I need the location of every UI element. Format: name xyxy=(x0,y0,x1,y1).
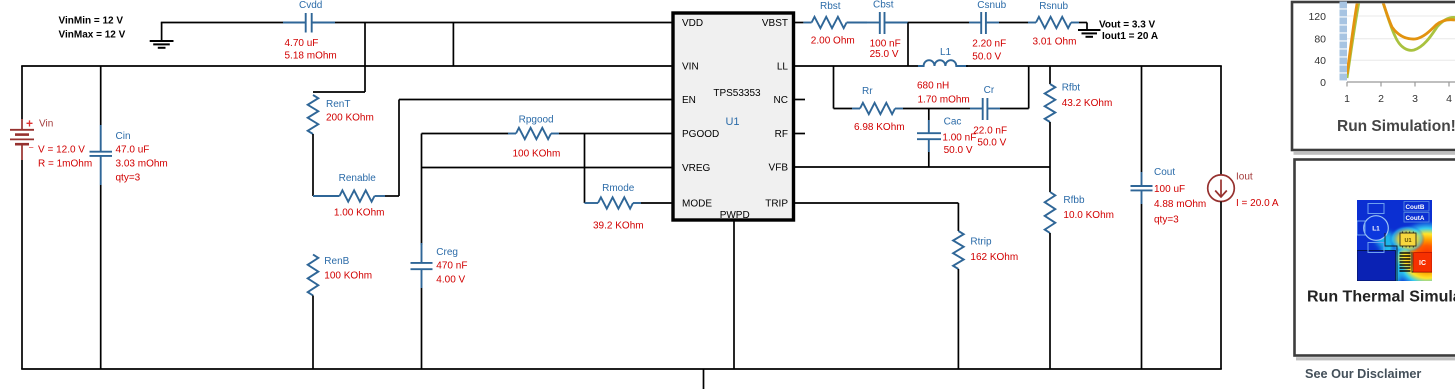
resistor Renable xyxy=(313,173,385,219)
wire TRIP xyxy=(794,203,959,231)
svg-text:U1: U1 xyxy=(725,116,739,128)
wire Iout top xyxy=(1220,66,1222,175)
resistor RenB xyxy=(308,255,372,296)
svg-text:100 KOhm: 100 KOhm xyxy=(513,149,561,160)
svg-text:3: 3 xyxy=(1412,93,1418,105)
wire Rr to Cr xyxy=(903,108,970,110)
wire Rsnub to output ground xyxy=(1079,23,1087,30)
chart curve green xyxy=(1347,0,1455,78)
svg-text:200 KOhm: 200 KOhm xyxy=(326,113,374,124)
wire Csnub to Rsnub xyxy=(999,22,1028,24)
wire Rr loop left vertical xyxy=(833,66,835,109)
wire PGOOD right segment xyxy=(559,133,673,135)
thermal image xyxy=(1357,200,1455,293)
svg-text:22.0 nF: 22.0 nF xyxy=(973,125,1007,136)
svg-text:VFB: VFB xyxy=(769,163,789,174)
panel: thermal simulation xyxy=(1295,160,1455,361)
svg-text:RenB: RenB xyxy=(324,256,349,267)
svg-text:39.2 KOhm: 39.2 KOhm xyxy=(593,221,644,232)
svg-text:470 nF: 470 nF xyxy=(436,260,467,271)
wire NC stub xyxy=(794,99,806,101)
svg-text:qty=3: qty=3 xyxy=(116,172,141,183)
resistor Rmode xyxy=(585,183,644,232)
svg-text:Run Simulation!: Run Simulation! xyxy=(1337,118,1455,135)
wire Cr to loop right xyxy=(1000,108,1029,110)
wire Rr left segment xyxy=(834,108,853,110)
svg-text:680 nH: 680 nH xyxy=(917,81,949,92)
wire RenB to bottom rail xyxy=(312,296,314,370)
svg-text:VinMin = 12 V: VinMin = 12 V xyxy=(59,16,124,27)
svg-text:PGOOD: PGOOD xyxy=(682,129,719,140)
svg-text:RenT: RenT xyxy=(326,99,350,110)
svg-text:R = 1mOhm: R = 1mOhm xyxy=(38,159,92,170)
wire RenT branch xyxy=(313,66,365,92)
svg-text:Renable: Renable xyxy=(339,173,377,184)
chart gridlines xyxy=(1347,16,1455,60)
chart curve orange xyxy=(1347,0,1455,74)
svg-text:Rtrip: Rtrip xyxy=(970,237,992,248)
wire Renable to EN corner xyxy=(385,195,399,197)
wire EN xyxy=(399,100,673,197)
svg-text:VREG: VREG xyxy=(682,163,711,174)
resistor Rfbb xyxy=(1045,192,1114,233)
svg-text:Cr: Cr xyxy=(984,85,995,96)
ground (input) xyxy=(150,23,174,48)
op-amp IC U1 TPS53353 xyxy=(673,13,794,221)
capacitor Csnub xyxy=(969,0,1007,63)
svg-text:IC: IC xyxy=(1419,260,1426,267)
wire junction drop x453 xyxy=(452,23,454,67)
chart y-axis tick strip xyxy=(1340,2,1348,81)
svg-text:CoutB: CoutB xyxy=(1406,204,1425,211)
svg-text:Cout: Cout xyxy=(1154,167,1175,178)
wire PGOOD left segment xyxy=(422,133,509,135)
svg-text:4.70 uF: 4.70 uF xyxy=(285,38,319,49)
svg-text:4: 4 xyxy=(1446,93,1452,105)
svg-text:LL: LL xyxy=(777,62,789,73)
svg-text:See Our Disclaimer: See Our Disclaimer xyxy=(1305,367,1421,381)
svg-text:CoutA: CoutA xyxy=(1406,215,1425,222)
wire LL rail left xyxy=(794,65,925,67)
capacitor Creg xyxy=(411,243,468,288)
wire Creg to bottom rail xyxy=(421,288,423,369)
svg-text:50.0 V: 50.0 V xyxy=(972,52,1001,63)
wire PWPD stem xyxy=(733,220,735,369)
wire junction drop x908 to LL xyxy=(907,23,909,67)
wire RF stub xyxy=(794,133,806,135)
wire Rtrip to bottom rail xyxy=(957,269,959,369)
wire junction drop x365 xyxy=(364,23,366,67)
svg-text:3.03 mOhm: 3.03 mOhm xyxy=(116,159,168,170)
svg-text:Cvdd: Cvdd xyxy=(299,0,322,11)
svg-text:V = 12.0 V: V = 12.0 V xyxy=(38,145,85,156)
current source Iout xyxy=(1208,172,1279,210)
wire Rfbb to bottom rail xyxy=(1049,233,1051,369)
panel: waveform chart xyxy=(1292,2,1455,155)
svg-text:RF: RF xyxy=(775,129,788,140)
svg-text:+: + xyxy=(26,117,33,131)
svg-text:L1: L1 xyxy=(1372,226,1380,233)
svg-text:47.0 uF: 47.0 uF xyxy=(116,144,150,155)
wire Rfbt top xyxy=(1049,66,1051,84)
svg-text:1.00 KOhm: 1.00 KOhm xyxy=(334,208,385,219)
svg-text:1.70 mOhm: 1.70 mOhm xyxy=(918,95,970,106)
chart x-axis xyxy=(1344,82,1455,105)
svg-text:Cin: Cin xyxy=(116,131,131,142)
svg-text:100 KOhm: 100 KOhm xyxy=(324,270,372,281)
svg-text:Csnub: Csnub xyxy=(977,0,1006,11)
wire Iout bottom xyxy=(1220,202,1222,370)
svg-text:Rbst: Rbst xyxy=(820,1,841,12)
wire MODE to IC xyxy=(641,202,673,204)
ground stem (bottom) xyxy=(703,369,705,389)
svg-text:TPS53353: TPS53353 xyxy=(713,88,761,99)
svg-text:5.18 mOhm: 5.18 mOhm xyxy=(285,51,337,62)
svg-text:50.0 V: 50.0 V xyxy=(944,145,973,156)
svg-text:40: 40 xyxy=(1314,55,1326,67)
svg-text:Rfbt: Rfbt xyxy=(1062,83,1081,94)
svg-text:100 nF: 100 nF xyxy=(870,38,901,49)
svg-text:100 uF: 100 uF xyxy=(1154,184,1185,195)
svg-text:80: 80 xyxy=(1314,33,1326,45)
svg-text:PWPD: PWPD xyxy=(720,210,750,221)
wire top VDD rail xyxy=(161,22,673,24)
wire left rail lower xyxy=(21,160,23,369)
svg-text:Iout: Iout xyxy=(1236,172,1253,183)
capacitor Cac xyxy=(917,109,976,168)
wire LL rail right xyxy=(966,65,1222,67)
capacitor Cout xyxy=(1131,66,1207,369)
svg-text:EN: EN xyxy=(682,95,696,106)
svg-text:Rr: Rr xyxy=(862,86,873,97)
svg-text:50.0 V: 50.0 V xyxy=(977,138,1006,149)
svg-text:Run Thermal Simulation!: Run Thermal Simulation! xyxy=(1307,289,1455,306)
svg-text:VinMax = 12 V: VinMax = 12 V xyxy=(59,30,126,41)
inductor L1 xyxy=(917,47,970,106)
svg-text:Vout = 3.3 V: Vout = 3.3 V xyxy=(1099,20,1156,31)
svg-text:6.98 KOhm: 6.98 KOhm xyxy=(854,122,905,133)
svg-text:2.20 nF: 2.20 nF xyxy=(972,38,1006,49)
svg-text:TRIP: TRIP xyxy=(765,199,788,210)
svg-text:VDD: VDD xyxy=(682,18,703,29)
capacitor Cin xyxy=(90,66,168,369)
svg-text:Rsnub: Rsnub xyxy=(1039,1,1068,12)
svg-text:43.2 KOhm: 43.2 KOhm xyxy=(1062,98,1113,109)
resistor Rtrip xyxy=(953,231,1018,269)
svg-text:VIN: VIN xyxy=(682,62,699,73)
wire VREG xyxy=(422,167,674,169)
svg-text:2.00 Ohm: 2.00 Ohm xyxy=(811,36,855,47)
wire Rr loop right vertical xyxy=(1028,66,1030,109)
wire VFB xyxy=(794,166,1051,168)
svg-text:L1: L1 xyxy=(940,47,952,58)
svg-text:10.0 KOhm: 10.0 KOhm xyxy=(1063,210,1114,221)
chart y-axis labels xyxy=(1308,11,1326,89)
svg-text:1: 1 xyxy=(1344,93,1350,105)
svg-text:3.01 Ohm: 3.01 Ohm xyxy=(1033,37,1077,48)
wire bottom ground rail xyxy=(21,368,1222,370)
wire RenT to Renable xyxy=(312,134,314,196)
svg-text:162 KOhm: 162 KOhm xyxy=(970,252,1018,263)
svg-text:4.00 V: 4.00 V xyxy=(436,275,465,286)
svg-text:0: 0 xyxy=(1320,77,1326,89)
resistor RenT xyxy=(308,95,374,134)
capacitor Cvdd xyxy=(283,0,337,62)
wire VIN rail xyxy=(21,65,673,67)
svg-text:Vin: Vin xyxy=(39,119,53,130)
svg-text:MODE: MODE xyxy=(682,199,712,210)
wire Rfbt to VFB junction xyxy=(1049,122,1051,192)
svg-text:2: 2 xyxy=(1378,93,1384,105)
svg-text:Rmode: Rmode xyxy=(602,183,635,194)
svg-text:25.0 V: 25.0 V xyxy=(870,49,899,60)
ground (output) xyxy=(1078,30,1101,37)
wire left rail upper xyxy=(21,66,23,119)
svg-text:4.88 mOhm: 4.88 mOhm xyxy=(1154,199,1206,210)
resistor Rsnub xyxy=(1028,1,1079,47)
wire VBST stub xyxy=(794,22,804,24)
svg-text:Creg: Creg xyxy=(436,247,458,258)
resistor Rpgood xyxy=(508,115,560,160)
svg-text:−: − xyxy=(29,143,34,153)
wire Cbst to Csnub xyxy=(908,22,969,24)
svg-text:U1: U1 xyxy=(1404,238,1411,244)
capacitor Cbst xyxy=(867,0,908,60)
resistor Rbst xyxy=(803,1,867,46)
resistor Rr xyxy=(852,86,905,133)
capacitor Cr xyxy=(970,85,1007,149)
svg-text:NC: NC xyxy=(774,95,788,106)
wire PGOOD/VREG/Creg vertical xyxy=(421,134,423,246)
svg-text:qty=3: qty=3 xyxy=(1154,215,1179,226)
svg-text:Rfbb: Rfbb xyxy=(1063,195,1085,206)
wire MODE junction vertical xyxy=(584,134,586,204)
voltage source Vin xyxy=(10,117,92,170)
svg-text:Rpgood: Rpgood xyxy=(519,115,554,126)
svg-text:1.00 nF: 1.00 nF xyxy=(942,133,976,144)
resistor Rfbt xyxy=(1045,83,1113,122)
svg-text:120: 120 xyxy=(1308,11,1326,23)
svg-text:Cbst: Cbst xyxy=(873,0,894,11)
svg-text:Cac: Cac xyxy=(944,116,962,127)
svg-text:I = 20.0 A: I = 20.0 A xyxy=(1236,198,1279,209)
svg-text:Iout1 = 20 A: Iout1 = 20 A xyxy=(1102,31,1158,42)
svg-text:VBST: VBST xyxy=(762,18,788,29)
